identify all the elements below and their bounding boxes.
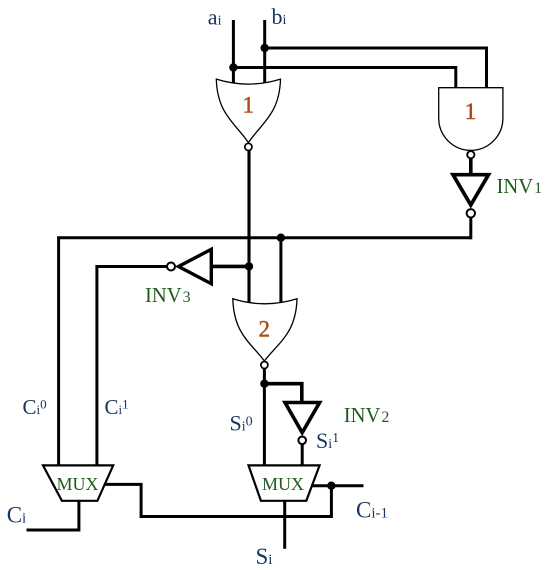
svg-text:2: 2 bbox=[259, 317, 271, 342]
wire NOR1 output down to NOR2 left input bbox=[247, 151, 250, 304]
wire INV3 output to MUX1 input Ci1 bbox=[97, 267, 167, 466]
svg-text:MUX: MUX bbox=[57, 474, 99, 494]
inverter INV3 output bubble bbox=[167, 263, 175, 271]
wire a to NAND left input bbox=[233, 68, 455, 91]
node rail junction to NOR2 right input bbox=[277, 234, 285, 242]
wire Ci-1 input bbox=[311, 484, 364, 487]
wire input a vertical bbox=[232, 20, 235, 86]
inverter INV2 triangle bbox=[285, 403, 320, 433]
MUX 1 body bbox=[43, 465, 113, 500]
wire NOR2 output down to MUX2 (Si0) bbox=[263, 369, 266, 466]
NOR gate 2 body bbox=[233, 299, 297, 361]
NOR gate 1 output bubble bbox=[245, 143, 252, 150]
inverter INV2 output bubble bbox=[298, 437, 306, 445]
wire NAND output to INV1 bbox=[469, 158, 473, 175]
wire junction to INV2 input bbox=[264, 384, 301, 402]
inverter INV1 output bubble bbox=[467, 209, 475, 217]
wire b to NAND right input bbox=[265, 48, 487, 90]
NAND gate 1 output bubble bbox=[467, 151, 474, 158]
NOR gate 2 output bubble bbox=[261, 362, 268, 369]
wire input b vertical bbox=[263, 20, 266, 86]
svg-text:INV3: INV3 bbox=[145, 285, 191, 307]
NAND gate 1 body bbox=[439, 88, 503, 151]
node Ci-1 junction bbox=[327, 482, 335, 490]
node a junction bbox=[229, 63, 237, 71]
svg-text:1: 1 bbox=[243, 93, 255, 118]
inverter INV1 triangle bbox=[453, 175, 489, 205]
wire INV2 output to MUX2 input Si1 bbox=[301, 444, 304, 465]
node Si0 junction bbox=[260, 380, 268, 388]
svg-text:1: 1 bbox=[465, 99, 477, 124]
wire long horizontal rail bbox=[59, 238, 471, 466]
wire NOR2 right input bbox=[279, 238, 282, 303]
wire INV1 output down to long rail bbox=[469, 218, 472, 240]
inverter INV3 triangle bbox=[179, 249, 212, 283]
wire MUX1 select from Ci-1 bbox=[104, 484, 331, 516]
svg-text:INV2: INV2 bbox=[344, 405, 390, 427]
node b junction bbox=[261, 44, 269, 52]
MUX 2 body bbox=[249, 465, 320, 500]
wire MUX2 output Si bbox=[283, 501, 286, 549]
wire to INV3 input bbox=[211, 265, 249, 269]
node NOR1 output junction to INV3 bbox=[245, 262, 253, 270]
svg-text:INV1: INV1 bbox=[497, 176, 543, 198]
NOR gate 1 body bbox=[216, 79, 280, 143]
svg-text:MUX: MUX bbox=[262, 474, 304, 494]
wire MUX1 output to Ci bbox=[27, 501, 79, 530]
